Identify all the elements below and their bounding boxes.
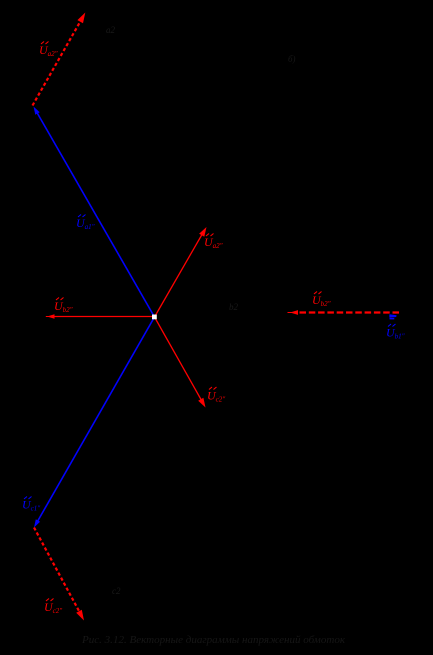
wire: red solid phasor Ua2' from center to upper-right (155, 227, 207, 317)
label Ua2' (red, upper-right solid) (204, 234, 223, 251)
wire: red solid phasor Uc2' from center to lower-right (155, 317, 206, 408)
label Uc2'' (red, bottom dashed) (44, 599, 62, 616)
wire: red dashed phasor Uc2'' from tip of Uc1 to bottom (34, 528, 84, 621)
svg-text:б): б) (288, 54, 296, 64)
label Ub2'' (red, above right dashed) (312, 292, 331, 309)
wire: red solid phasor Ub2' from center to left (46, 314, 155, 318)
svg-text:c2: c2 (112, 586, 121, 596)
wire: blue phasor line Ua1 from center to upper-left (34, 107, 155, 318)
svg-text:a2: a2 (106, 25, 116, 35)
wire: blue phasor line Uc1 from center to lower-left (34, 317, 155, 528)
wire: red dashed phasor Ua2'' from tip of Ua1 to top (33, 13, 86, 106)
label Ua1 (blue, upper line) (76, 215, 95, 232)
label Ub2' (red, left solid) (54, 298, 73, 315)
svg-text:Рис. 3.12. Векторные диаграммы: Рис. 3.12. Векторные диаграммы напряжени… (81, 635, 345, 646)
node center white square (152, 315, 157, 320)
svg-text:b2: b2 (229, 302, 239, 312)
label Uc1 (blue, lower line) (22, 497, 40, 513)
label Ub1 (blue, right end) (386, 324, 405, 341)
wire: blue phasor tip Ub1 at right (mostly hidden under dashed line) (389, 314, 396, 319)
label Ua2'' (red, top-left dashed) (39, 42, 58, 59)
label Uc2' (red, lower-right solid) (207, 387, 225, 404)
wire: red dashed phasor Ub2'' from tip of Ub1 pointing left (288, 310, 400, 315)
